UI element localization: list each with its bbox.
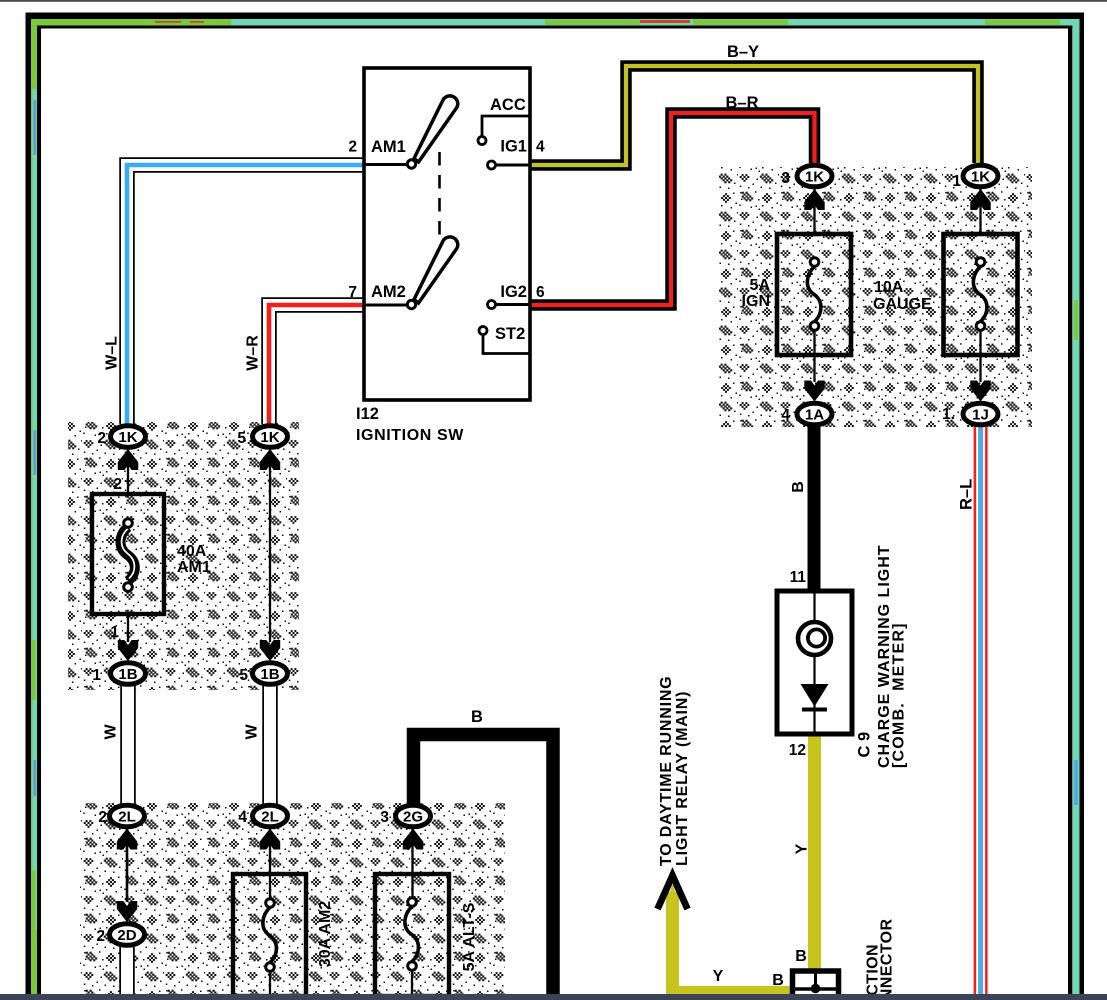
svg-text:2G: 2G	[403, 809, 423, 826]
connector oval 2L right (pin 4)	[253, 805, 288, 827]
fuse 30A AM2 box	[233, 874, 306, 996]
wire Y (yellow) from charge warning light C9 to junction connector	[808, 733, 821, 970]
border outer black right	[1080, 13, 1085, 1000]
wire B (black) thick from connector 1A to charge warning light C9	[808, 420, 821, 592]
wire B-Y (black-yellow) from ignition SW IG1 to fuse 10A GAUGE connector 1K	[530, 66, 978, 165]
svg-text:3: 3	[781, 170, 790, 187]
svg-text:B–R: B–R	[725, 94, 758, 112]
svg-text:R–L: R–L	[958, 479, 976, 510]
arrow down into connector 2D	[117, 901, 137, 922]
wire W (white) below connector 2D	[119, 947, 135, 996]
bottom navy crop band	[0, 994, 1107, 1000]
junction connector box	[793, 971, 839, 1000]
border color band left	[31, 19, 37, 1000]
connector line 1K to 1B middle column	[269, 449, 271, 642]
svg-text:GAUGE: GAUGE	[873, 296, 932, 313]
fuse 5A IGN box	[777, 234, 851, 355]
ignition SW dashed link	[438, 152, 441, 238]
svg-text:2: 2	[96, 928, 105, 945]
connector line 1K to fuse 5A IGN	[813, 189, 815, 234]
ignition switch I12 box	[364, 68, 530, 400]
ignition SW lever AM2	[414, 237, 458, 303]
svg-text:TO DAYTIME RUNNING: TO DAYTIME RUNNING	[658, 676, 675, 866]
svg-text:2D: 2D	[117, 927, 136, 944]
ignition SW contact IG1 pin 4	[488, 161, 531, 169]
wire R-L (red-blue) from connector 1J down to bottom edge	[974, 427, 988, 996]
connector oval 1K right-B (pin 1)	[963, 165, 998, 187]
border color band top green segments	[31, 19, 231, 26]
svg-text:1.: 1.	[942, 406, 955, 423]
ignition SW lever AM1	[414, 96, 458, 162]
svg-text:B: B	[772, 972, 784, 989]
connector line 1K to fuse 40A AM1	[127, 449, 129, 494]
svg-text:1J: 1J	[972, 407, 989, 424]
svg-text:10A: 10A	[874, 279, 904, 296]
svg-text:1K: 1K	[118, 429, 137, 446]
connector line 2G into fuse 5A ALT-S	[411, 829, 413, 898]
svg-text:12: 12	[789, 742, 806, 759]
arrow down into connector 1A	[804, 381, 824, 402]
svg-text:W: W	[103, 724, 120, 740]
svg-text:2: 2	[97, 430, 106, 447]
arrow up into connector 1K (pin 3)	[804, 189, 824, 210]
border outer black left	[26, 13, 32, 1000]
arrow down into connector 1B left	[118, 640, 138, 661]
halftone block left	[68, 422, 299, 690]
ignition SW contact AM2 pin 7	[364, 300, 416, 308]
border inner black line right	[1068, 26, 1072, 1000]
svg-text:B: B	[790, 481, 807, 493]
fuse 40A AM1 element	[121, 519, 135, 592]
svg-text:2: 2	[98, 809, 107, 826]
svg-text:B–Y: B–Y	[727, 43, 759, 61]
wire Y (yellow) bottom horizontal to daytime running light relay arrow	[673, 892, 792, 993]
connector line 2L right into fuse 30A AM2	[269, 829, 271, 899]
arrow head TO DAYTIME RUNNING LIGHT RELAY	[658, 876, 688, 910]
svg-text:2: 2	[113, 476, 122, 493]
wire W-L (white-blue) from ignition SW AM1 to connector 1K	[127, 165, 364, 424]
svg-text:W–R: W–R	[245, 335, 262, 371]
connector oval 1B left (pin 1)	[111, 663, 146, 685]
svg-text:AM1: AM1	[371, 138, 406, 156]
connector line below fuse 5A ALT-S	[411, 970, 413, 996]
svg-text:Y: Y	[794, 843, 811, 854]
svg-text:1: 1	[952, 173, 961, 190]
arrow down into connector 1B right	[260, 640, 280, 661]
connector oval 2L left (pin 2)	[110, 805, 145, 827]
ignition SW contact AM1 pin 2	[364, 160, 416, 168]
svg-text:1: 1	[110, 624, 119, 641]
svg-text:[COMB. METER]: [COMB. METER]	[891, 622, 908, 768]
connector oval 2D (pin 2)	[110, 924, 145, 946]
svg-text:IGNITION SW: IGNITION SW	[356, 427, 464, 444]
svg-text:1B: 1B	[260, 666, 279, 683]
svg-text:1K: 1K	[971, 169, 990, 186]
svg-text:B: B	[471, 708, 483, 726]
svg-text:4: 4	[781, 407, 790, 424]
svg-text:3: 3	[380, 809, 389, 826]
fuse 10A GAUGE box	[944, 234, 1018, 355]
wire W (white) from connector 1B to 2L right column	[262, 686, 278, 804]
svg-text:30A AM2: 30A AM2	[317, 901, 334, 967]
border inner black line top	[37, 26, 1072, 29]
svg-text:11: 11	[790, 569, 807, 586]
arrow up into connector 1K left	[118, 449, 138, 470]
svg-text:5A ALT-S: 5A ALT-S	[461, 902, 478, 971]
svg-text:4: 4	[536, 139, 545, 156]
fuse 40A AM1 box	[92, 494, 164, 614]
svg-text:2L: 2L	[261, 809, 279, 826]
svg-text:IGN: IGN	[742, 293, 770, 310]
border color band top	[31, 19, 1080, 26]
arrow down into connector 1J	[970, 381, 990, 402]
svg-text:ST2: ST2	[495, 325, 525, 343]
connector line 2L to 2D left column	[126, 829, 129, 902]
svg-text:I12: I12	[356, 405, 379, 423]
arrow up into connector 2L right	[260, 829, 280, 850]
svg-text:4: 4	[238, 809, 247, 826]
svg-text:1A: 1A	[805, 407, 824, 424]
ignition SW contact ST2	[479, 327, 530, 354]
svg-text:2: 2	[348, 139, 357, 156]
fuse 30A AM2 element	[263, 899, 277, 972]
fuse 5A IGN element	[807, 258, 821, 331]
border inner black line left	[37, 26, 41, 1000]
connector line below fuse 30A	[269, 971, 271, 996]
wire B (black) thick from bottom edge up and left to connector 2G	[414, 735, 554, 997]
svg-text:Y: Y	[713, 968, 724, 985]
C9 bulb	[798, 622, 831, 655]
halftone block top right	[719, 167, 1032, 427]
svg-text:IG1: IG1	[500, 138, 527, 156]
fuse 10A GAUGE element	[973, 258, 987, 331]
connector line 1K to fuse 10A GAUGE	[979, 189, 981, 234]
connector line fuse 10A to 1J	[979, 330, 981, 382]
C9 internal wire	[813, 591, 815, 734]
connector oval 1J (pin 1)	[963, 403, 998, 425]
svg-text:5A: 5A	[750, 277, 771, 294]
svg-text:6: 6	[536, 284, 545, 301]
halftone block bottom	[80, 803, 505, 994]
connector oval 1K middle (pin 5)	[253, 426, 288, 448]
ignition SW contact ACC	[478, 116, 530, 145]
svg-text:1K: 1K	[805, 169, 824, 186]
svg-text:5: 5	[237, 430, 246, 447]
svg-text:ACC: ACC	[490, 96, 526, 114]
wire B-R (black-red) from ignition SW IG2 to fuse 5A IGN connector 1K	[530, 113, 815, 305]
connector oval 1A (pin 4)	[797, 403, 832, 425]
svg-text:AM1: AM1	[177, 559, 211, 576]
svg-text:1B: 1B	[118, 666, 137, 683]
svg-text:AM2: AM2	[371, 283, 406, 301]
svg-text:1K: 1K	[260, 429, 279, 446]
svg-text:IG2: IG2	[500, 283, 527, 301]
svg-text:C 9: C 9	[856, 732, 874, 758]
svg-text:LIGHT RELAY (MAIN): LIGHT RELAY (MAIN)	[674, 691, 691, 866]
svg-text:CONNECTOR: CONNECTOR	[879, 919, 896, 1000]
ignition SW contact IG2 pin 6	[488, 301, 531, 309]
top page edge line	[0, 0, 1107, 2]
arrow up into connector 1K middle	[260, 449, 280, 470]
connector oval 1B right (pin 5)	[253, 663, 288, 685]
fuse 5A ALT-S element	[405, 898, 419, 971]
svg-text:5: 5	[239, 667, 248, 684]
border outer black top	[26, 13, 1085, 20]
connector oval 1K right-A (pin 3)	[797, 165, 832, 187]
arrow up into connector 1K (pin 1)	[970, 189, 990, 210]
arrow up into connector 2L left	[117, 829, 137, 850]
C9 diode	[801, 684, 829, 710]
svg-text:W: W	[244, 724, 261, 740]
arrow up into connector 2G	[403, 829, 423, 850]
charge warning light C9 box	[777, 591, 852, 734]
connector line fuse 40A to 1B	[127, 614, 129, 642]
svg-text:W–L: W–L	[104, 336, 121, 370]
svg-text:2L: 2L	[118, 809, 136, 826]
svg-text:B: B	[795, 948, 807, 965]
svg-text:40A: 40A	[177, 543, 207, 560]
fuse 5A ALT-S box	[375, 874, 449, 996]
wire W-R (white-red) from ignition SW AM2 to connector 1K	[269, 305, 364, 424]
connector line fuse 5A IGN to 1A	[813, 330, 815, 382]
wire W (white) from connector 1B to 2L left column	[120, 686, 136, 804]
border color band right	[1072, 19, 1079, 1000]
connector oval 1K left (pin 2)	[111, 426, 146, 448]
connector oval 2G (pin 3)	[396, 805, 431, 827]
svg-text:7: 7	[348, 284, 357, 301]
svg-text:1: 1	[92, 667, 101, 684]
